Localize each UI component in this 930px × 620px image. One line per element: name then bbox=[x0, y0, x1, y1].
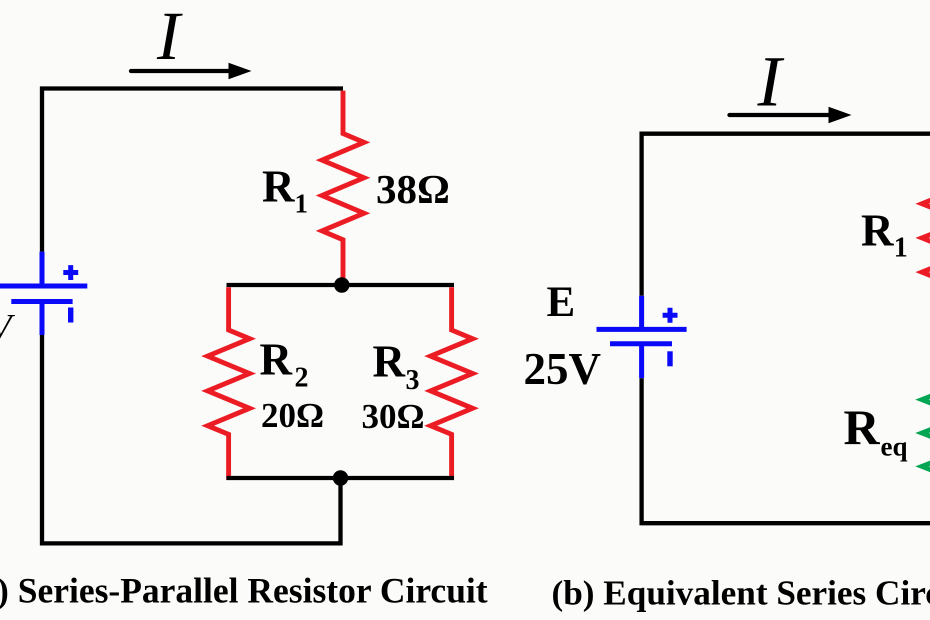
wire: top wire of circuit b bbox=[642, 134, 930, 296]
wire: top wire of circuit a bbox=[42, 89, 343, 252]
node: top junction dot bbox=[334, 277, 349, 292]
wire: battery top lead (blue) bbox=[639, 296, 644, 330]
resistor R1 (red zigzag, circuit b, cut at right edge) bbox=[922, 160, 930, 320]
wire: left side down from battery to bottom (circuit b) bbox=[642, 378, 930, 523]
wire: parallel section top rail bbox=[227, 283, 455, 287]
svg-text:30Ω: 30Ω bbox=[362, 397, 425, 436]
wire: left side down from battery to bottom (circuit a) bbox=[42, 335, 341, 543]
wire: parallel section bottom rail bbox=[227, 476, 455, 480]
svg-text:R: R bbox=[262, 161, 295, 211]
svg-text:38Ω: 38Ω bbox=[376, 166, 450, 212]
svg-text:1: 1 bbox=[295, 189, 309, 219]
resistor R1 (red zigzag, circuit a) bbox=[322, 91, 364, 285]
svg-text:eq: eq bbox=[881, 432, 908, 462]
svg-text:25V: 25V bbox=[524, 344, 602, 394]
battery long plate (+) bbox=[597, 327, 687, 332]
svg-text:) Series-Parallel Resistor Cir: ) Series-Parallel Resistor Circuit bbox=[0, 570, 488, 610]
battery minus tick bbox=[667, 351, 672, 366]
svg-text:I: I bbox=[757, 42, 785, 122]
svg-text:R: R bbox=[260, 334, 293, 384]
resistor Req (green zigzag, cut at right edge) bbox=[922, 355, 930, 510]
svg-text:2: 2 bbox=[295, 363, 309, 394]
battery plus sign bbox=[663, 308, 678, 323]
svg-text:R: R bbox=[861, 206, 894, 256]
svg-text:R: R bbox=[373, 337, 406, 387]
wire: battery bottom lead (blue) bbox=[40, 302, 45, 336]
resistor R2 (red zigzag, left branch) bbox=[208, 287, 250, 480]
svg-text:(b) Equivalent Series Circuit: (b) Equivalent Series Circuit bbox=[552, 574, 930, 613]
current arrow (circuit a) bbox=[131, 69, 231, 73]
svg-text:E: E bbox=[547, 279, 576, 326]
battery short plate (-) bbox=[11, 299, 72, 304]
svg-text:20Ω: 20Ω bbox=[261, 396, 324, 435]
battery plus sign bbox=[63, 265, 78, 280]
wire: battery top lead (blue) bbox=[40, 252, 45, 286]
wire: battery bottom lead (blue) bbox=[639, 344, 644, 378]
svg-text:3: 3 bbox=[406, 365, 420, 396]
battery minus tick bbox=[68, 308, 73, 323]
current arrow (circuit b) bbox=[730, 113, 831, 117]
svg-text:1: 1 bbox=[894, 232, 908, 263]
battery short plate (-) bbox=[610, 341, 672, 346]
battery E (circuit a, blue) bbox=[0, 252, 87, 335]
svg-text:R: R bbox=[844, 399, 881, 455]
battery long plate (+) bbox=[0, 284, 87, 289]
node: bottom junction dot bbox=[333, 470, 348, 485]
resistor R3 (red zigzag, right branch) bbox=[431, 287, 473, 480]
svg-text:I: I bbox=[156, 0, 183, 74]
battery E (circuit b, blue) bbox=[597, 296, 687, 378]
